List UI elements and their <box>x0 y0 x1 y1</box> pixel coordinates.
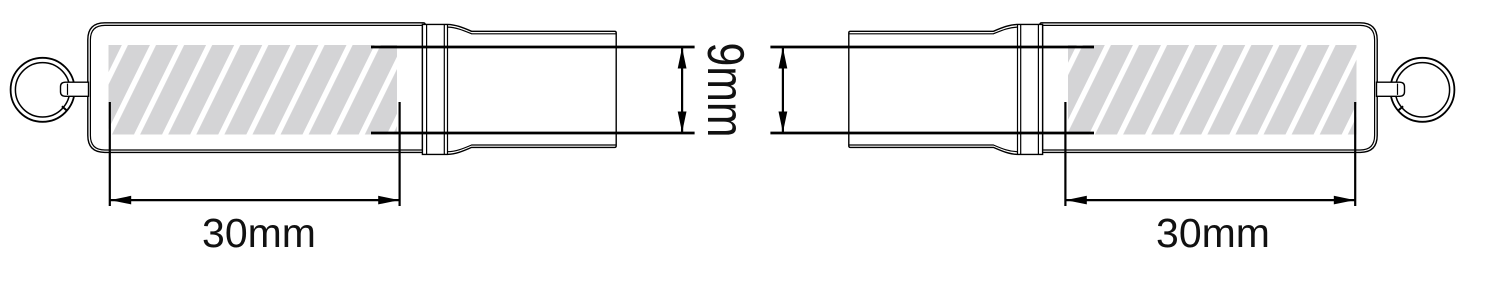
svg-text:9mm: 9mm <box>696 43 754 138</box>
svg-text:30mm: 30mm <box>202 210 316 256</box>
svg-text:30mm: 30mm <box>1156 210 1270 256</box>
